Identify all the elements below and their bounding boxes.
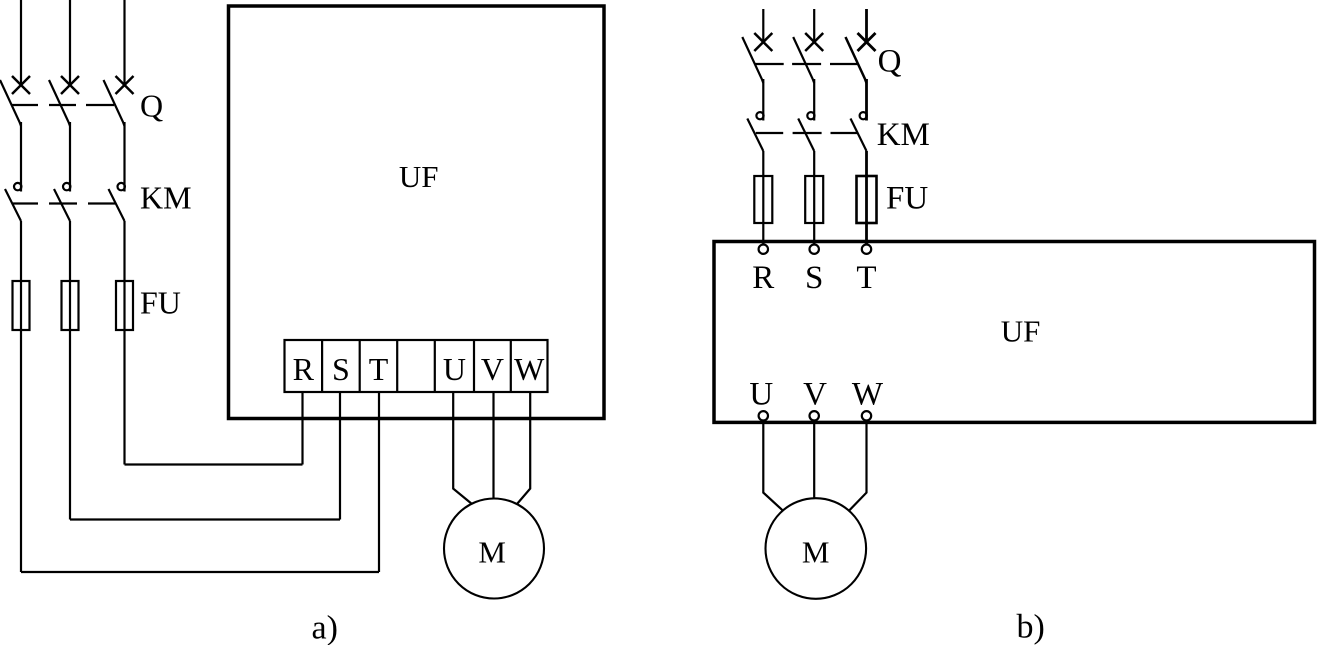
svg-text:a): a) [312, 610, 338, 645]
wire L1 supply drop (pole 1) [20, 0, 22, 86]
contactor KM pole 2 contact arc (b) [807, 112, 814, 119]
svg-text:FU: FU [886, 181, 928, 217]
inverter UF enclosure box (a) [229, 6, 605, 419]
breaker Q pole 3 blade (b) [846, 37, 867, 83]
breaker Q pole 1 blade (b) [742, 37, 763, 83]
contactor KM pole 1 contact arc [14, 183, 21, 190]
wire pole1 FU to box (b) [762, 223, 764, 246]
breaker Q pole 2 blade [49, 80, 70, 126]
breaker Q pole 3 blade [104, 80, 125, 126]
breaker Q pole 3 contact cross [116, 76, 134, 94]
svg-text:UF: UF [399, 159, 439, 194]
input terminal circle S (b) [810, 245, 819, 254]
svg-text:Q: Q [878, 44, 902, 80]
wire pole1 KM to FU (b) [762, 151, 764, 176]
wire S supply drop (pole 2) [813, 9, 815, 43]
wire pole3 KM to FU (b) [865, 151, 868, 176]
svg-text:M: M [802, 535, 830, 570]
svg-text:FU: FU [140, 285, 181, 321]
contactor KM pole 2 contact arc [63, 183, 70, 190]
fuse FU pole 2 (b) [805, 176, 823, 223]
fuse FU pole 1 (b) [754, 176, 772, 223]
fuse FU pole 3 (b) [857, 176, 877, 223]
svg-text:W: W [852, 377, 884, 413]
wire pole2 KM to FU [69, 221, 71, 281]
contactor KM pole 3 contact arc [118, 183, 125, 190]
wire pole3 Q to KM (b) [865, 79, 868, 121]
svg-text:U: U [749, 377, 773, 413]
wire pole1 horizontal run to terminal T [21, 571, 379, 573]
svg-text:V: V [803, 377, 827, 413]
wire pole2 Q to KM (b) [813, 79, 815, 121]
contactor KM pole 1 blade [5, 189, 21, 221]
wire pole1 FU down [20, 330, 22, 572]
breaker Q linkage dashed line [12, 104, 114, 106]
terminal strip divider 6 [510, 340, 512, 392]
wire R supply drop (pole 1) [762, 9, 764, 43]
inverter UF enclosure box (b) [714, 242, 1315, 423]
wire terminal U to motor (b) [763, 421, 783, 511]
breaker Q pole 3 contact cross (b) [858, 33, 876, 51]
svg-text:b): b) [1017, 609, 1045, 645]
contactor KM linkage dashed line (b) [756, 132, 858, 134]
svg-text:R: R [752, 260, 774, 296]
svg-text:Q: Q [140, 88, 163, 124]
breaker Q pole 1 contact cross (b) [754, 33, 772, 51]
svg-text:KM: KM [140, 180, 192, 216]
terminal strip divider 1 [321, 340, 323, 392]
wire riser to terminal R [301, 392, 303, 465]
contactor KM pole 3 contact arc (b) [860, 112, 867, 119]
svg-text:S: S [332, 351, 350, 387]
breaker Q pole 1 contact cross [12, 76, 30, 94]
wire pole3 FU to box (b) [865, 223, 868, 246]
input terminal circle R (b) [759, 245, 768, 254]
wire L3 supply drop (pole 3) [123, 0, 125, 86]
wire terminal U to motor [453, 392, 471, 504]
output terminal circle V (b) [810, 411, 819, 420]
contactor KM pole 1 blade (b) [747, 119, 763, 152]
fuse FU pole 2 [62, 281, 79, 330]
breaker Q pole 2 blade (b) [793, 37, 814, 83]
input terminal circle T (b) [862, 245, 871, 254]
svg-text:M: M [478, 535, 506, 570]
breaker Q pole 2 contact cross (b) [805, 33, 823, 51]
wire pole2 FU down [69, 330, 71, 520]
terminal strip outline [285, 340, 548, 392]
wire riser to terminal T [378, 392, 380, 572]
contactor KM pole 2 blade [54, 189, 70, 221]
fuse FU pole 1 [13, 281, 30, 330]
terminal strip divider 2 [359, 340, 361, 392]
svg-text:UF: UF [1001, 314, 1041, 349]
wire pole3 KM to FU [123, 221, 125, 281]
svg-text:KM: KM [877, 117, 930, 153]
wire pole1 Q to KM [20, 122, 22, 192]
svg-text:T: T [369, 351, 389, 387]
contactor KM pole 1 contact arc (b) [756, 112, 763, 119]
wire T supply drop (pole 3) [865, 9, 868, 43]
wire L2 supply drop (pole 2) [69, 0, 71, 86]
svg-text:V: V [481, 351, 504, 387]
svg-text:R: R [293, 351, 315, 387]
wire pole3 FU down [123, 330, 125, 465]
breaker Q pole 1 blade [0, 80, 21, 126]
motor M circle (b) [766, 498, 867, 599]
wire riser to terminal S [339, 392, 341, 520]
wire pole2 horizontal run to terminal S [70, 518, 340, 520]
wire terminal W to motor (b) [849, 421, 867, 511]
wire pole3 horizontal run to terminal R [125, 463, 303, 465]
wire pole1 KM to FU [20, 221, 22, 281]
breaker Q linkage dashed line (b) [755, 63, 858, 65]
wire pole2 Q to KM [69, 122, 71, 192]
contactor KM pole 2 blade (b) [798, 119, 814, 152]
svg-text:U: U [443, 351, 466, 387]
wire pole2 FU to box (b) [813, 223, 815, 246]
fuse FU pole 3 [116, 281, 133, 330]
wire pole2 KM to FU (b) [813, 151, 815, 176]
terminal strip divider 4 [434, 340, 436, 392]
wire pole1 Q to KM (b) [762, 79, 764, 121]
output terminal circle W (b) [862, 411, 871, 420]
svg-text:S: S [805, 260, 823, 296]
wire terminal V to motor [492, 392, 494, 499]
terminal strip divider 5 [473, 340, 475, 392]
breaker Q pole 2 contact cross [61, 76, 79, 94]
wire pole3 Q to KM [123, 122, 125, 192]
contactor KM linkage dashed line [13, 202, 115, 204]
output terminal circle U (b) [759, 411, 768, 420]
contactor KM pole 3 blade [109, 189, 125, 221]
terminal strip divider 3 [396, 340, 398, 392]
wire terminal V to motor (b) [813, 421, 815, 499]
motor M circle (a) [444, 499, 544, 599]
contactor KM pole 3 blade (b) [851, 119, 867, 152]
svg-text:W: W [514, 351, 545, 387]
wire terminal W to motor [517, 392, 530, 504]
svg-text:T: T [856, 260, 876, 296]
